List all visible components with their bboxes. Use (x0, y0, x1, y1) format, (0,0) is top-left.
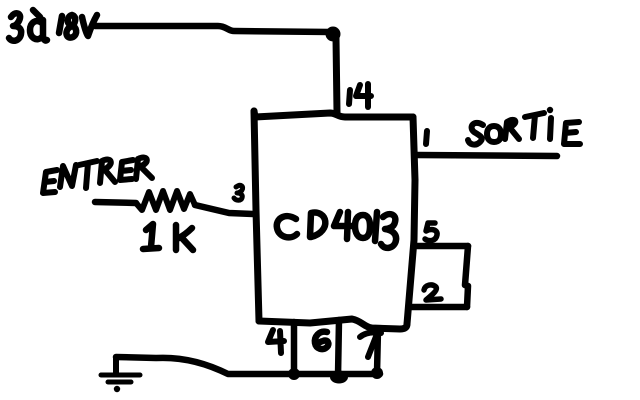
wire: loop right side (pin5 to pin2) (465, 246, 468, 307)
pin label 4 (268, 330, 284, 353)
pin label 14 (349, 84, 371, 107)
ground symbol (101, 375, 140, 382)
pin label 2 (424, 285, 441, 300)
label ENTRER (input) (43, 158, 152, 193)
pin label 3 (234, 185, 243, 200)
wire: junction down to pin 14 (336, 38, 337, 112)
wire: supply to junction (95, 26, 330, 32)
wire: pin 6 down (338, 320, 339, 376)
wire: resistor to pin 3 (195, 205, 253, 214)
wire: pin 7 down (377, 329, 378, 373)
wire: pin 4 down (291, 322, 298, 374)
label 3 à 18V (supply voltage text) (9, 10, 97, 41)
value label 1k (143, 224, 193, 250)
wire: pin 1 to SORTIE (417, 155, 557, 156)
junction node pin4/bus (288, 368, 300, 380)
wire: input lead to resistor (95, 202, 136, 203)
junction node (dot) at supply/pin14 (326, 27, 341, 42)
wire: pin 5 to loop box (417, 243, 468, 250)
pin label 1 (426, 131, 427, 144)
junction node pin7/bus (371, 367, 383, 379)
pin label 6 (315, 332, 329, 349)
IC name CD4013 (277, 212, 396, 248)
resistor R1 1k (zigzag) (136, 191, 195, 210)
junction node pin6/bus (330, 371, 348, 384)
pin label 7 (360, 332, 381, 357)
IC body CD4013 (box outline) (254, 111, 413, 117)
pin label 5 (425, 223, 437, 241)
wire: ground stub (113, 357, 119, 373)
wire: pin 2 (loop bottom) (409, 304, 467, 311)
label SORTIE (output) (468, 107, 580, 145)
wire: ground bus (116, 357, 380, 374)
